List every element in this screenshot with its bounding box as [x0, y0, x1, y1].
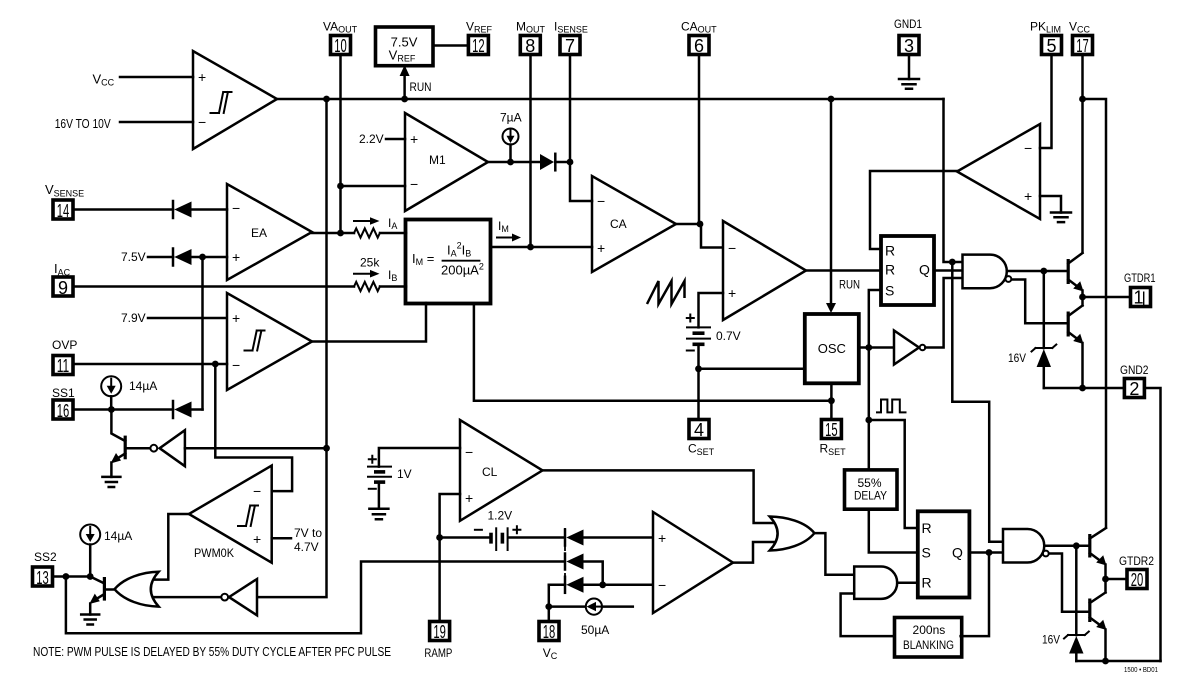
- block 200ns BLANKING: [895, 618, 962, 658]
- svg-text:6: 6: [694, 36, 704, 56]
- latch FF2: [918, 511, 970, 597]
- ground GND1: [908, 55, 911, 80]
- svg-text:S: S: [885, 283, 894, 299]
- comparator PKLIM: [957, 124, 1040, 219]
- comparator PWM2: [653, 512, 733, 613]
- svg-text:−: −: [728, 240, 736, 256]
- node RSET: [828, 397, 835, 404]
- svg-text:18: 18: [543, 622, 556, 642]
- diode D7: [564, 577, 567, 593]
- nand gate NAND2: [1003, 529, 1044, 563]
- wire NAND2 inverted out: [1050, 554, 1089, 612]
- wire PWM2 out: [733, 542, 774, 563]
- svg-text:8: 8: [525, 36, 535, 56]
- wire RUN to NAND2: [952, 262, 1003, 542]
- svg-text:−: −: [410, 176, 418, 192]
- node RAMP: [436, 534, 443, 541]
- svg-text:1: 1: [1133, 288, 1143, 308]
- wire OR1 lower input: [155, 596, 221, 599]
- svg-text:−: −: [597, 193, 605, 209]
- wire FF1 Q out: [934, 269, 963, 272]
- sawtooth waveform symbol: [647, 281, 685, 304]
- node bus-inv: [323, 96, 330, 103]
- battery 0.7V: [687, 326, 710, 328]
- svg-text:GND2: GND2: [1120, 363, 1149, 377]
- pin 18 VC: [539, 622, 559, 641]
- svg-text:50µA: 50µA: [581, 623, 609, 637]
- wire PKLIM comp out to FF1 R: [870, 171, 957, 249]
- svg-text:17: 17: [1076, 36, 1089, 56]
- wire IAC: [73, 285, 354, 288]
- comparator PWM1: [723, 221, 806, 320]
- wire 7.5V: [148, 256, 173, 259]
- svg-text:14µA: 14µA: [104, 529, 132, 543]
- svg-text:PWM0K: PWM0K: [194, 548, 234, 560]
- node VC: [545, 603, 552, 610]
- svg-text:SS2: SS2: [34, 550, 57, 564]
- node CSET: [695, 365, 702, 372]
- ground SS2: [81, 615, 99, 625]
- transistor Q3 (GTDR1 pull-up): [1067, 259, 1070, 284]
- battery 1V: [368, 466, 391, 468]
- svg-text:14µA: 14µA: [129, 379, 157, 393]
- wire CL minus to 1V: [379, 448, 460, 467]
- node M1 out: [507, 159, 514, 166]
- transistor Q4 (GTDR1 pull-down): [1067, 312, 1070, 337]
- svg-text:12: 12: [472, 36, 485, 56]
- wire clock to FF2 R: [869, 420, 918, 528]
- svg-text:RUN: RUN: [839, 278, 860, 292]
- svg-text:3: 3: [904, 36, 914, 56]
- svg-text:R: R: [885, 262, 895, 278]
- svg-text:16V TO 10V: 16V TO 10V: [55, 116, 111, 131]
- wire OVP to PWM0K minus: [215, 364, 292, 491]
- svg-text:CL: CL: [482, 465, 498, 479]
- svg-text:16V: 16V: [1008, 351, 1026, 365]
- svg-text:7: 7: [565, 36, 575, 56]
- diode D4: [540, 154, 554, 170]
- wire VSENSE: [73, 208, 173, 211]
- wire PWM1 plus: [699, 293, 724, 327]
- svg-text:−: −: [198, 114, 206, 130]
- svg-text:M1: M1: [429, 153, 446, 167]
- comparator CL: [460, 420, 543, 521]
- svg-text:DELAY: DELAY: [854, 489, 887, 503]
- node SS2 a: [63, 573, 70, 580]
- svg-text:EA: EA: [251, 226, 267, 240]
- wire CA minus: [570, 162, 592, 201]
- wire GTDR1: [1083, 296, 1131, 299]
- wire battery to CSET node: [697, 344, 700, 369]
- svg-text:+: +: [465, 490, 473, 506]
- node SS1: [108, 406, 115, 413]
- multiplier amp M1: [405, 113, 488, 211]
- node NAND1 out: [1040, 268, 1047, 275]
- wire RSET net: [474, 303, 832, 401]
- svg-text:SS1: SS1: [52, 386, 75, 400]
- node NAND2 out: [1073, 542, 1080, 549]
- error amp CA: [592, 176, 676, 272]
- wire CAOUT: [698, 55, 701, 225]
- transistor Q1 (SS1 reset): [124, 436, 127, 460]
- error amp EA: [227, 184, 312, 280]
- svg-text:10: 10: [334, 36, 347, 56]
- dashed matching line: [564, 528, 566, 594]
- svg-text:OVP: OVP: [52, 338, 77, 352]
- node Q2: [986, 549, 993, 556]
- wire SS2 return: [66, 562, 564, 634]
- wire 55pct delay to FF2 S: [869, 509, 918, 552]
- diode D2: [172, 249, 175, 266]
- label IA arrow: [354, 220, 371, 222]
- svg-text:16V: 16V: [1042, 633, 1060, 647]
- svg-text:25k: 25k: [360, 256, 380, 270]
- svg-text:7.9V: 7.9V: [121, 311, 146, 325]
- wire 7.5V vertical: [201, 257, 204, 410]
- diode D5: [564, 530, 567, 546]
- node GTDR2: [1102, 576, 1109, 583]
- wire RUN arrow into regulator: [403, 74, 406, 99]
- svg-text:+: +: [728, 285, 736, 301]
- svg-text:R: R: [922, 575, 932, 591]
- svg-text:19: 19: [433, 622, 446, 642]
- ground SS1: [102, 477, 120, 487]
- svg-text:RUN: RUN: [410, 80, 432, 94]
- svg-text:−: −: [1024, 140, 1032, 156]
- svg-text:0.7V: 0.7V: [716, 329, 741, 343]
- node inverter U2: [323, 445, 330, 452]
- svg-text:R: R: [885, 243, 895, 259]
- wire VAOUT: [339, 55, 342, 234]
- ground PKLIM: [1051, 213, 1071, 223]
- zener 16V Z2: [1075, 546, 1078, 635]
- inverter U2: [160, 430, 185, 466]
- node D6-D7: [599, 581, 606, 588]
- svg-text:BLANKING: BLANKING: [903, 638, 954, 652]
- wire CA out: [676, 224, 723, 248]
- wire bottom rail: [1076, 660, 1160, 663]
- wire AND1 out: [897, 581, 918, 584]
- wire NAND2 out: [1044, 545, 1088, 548]
- diode D1: [172, 201, 175, 218]
- wire PWM0K plus stub: [272, 537, 291, 540]
- and gate AND1: [854, 567, 897, 599]
- node ISENSE-diode: [567, 159, 574, 166]
- wire 2.2V: [386, 138, 405, 141]
- nand gate NAND1: [963, 255, 1007, 289]
- svg-text:NOTE: PWM PULSE IS DELAYED BY: NOTE: PWM PULSE IS DELAYED BY 55% DUTY C…: [33, 644, 391, 659]
- schmitt comparator PWM0K: [189, 466, 272, 563]
- diode D6: [564, 554, 567, 570]
- wire EA out / IA resistor: [312, 232, 354, 235]
- svg-text:−: −: [658, 577, 666, 593]
- svg-text:+: +: [597, 240, 605, 256]
- svg-text:11: 11: [57, 356, 70, 376]
- comparator U1 (UVLO 16V TO 10V): [193, 51, 277, 149]
- node 7.5V diode: [199, 254, 206, 261]
- svg-text:9: 9: [58, 278, 68, 298]
- wire RUN to inverters: [257, 99, 327, 597]
- wire schmitt out to multiplier: [312, 303, 426, 342]
- svg-text:16: 16: [57, 401, 70, 421]
- wire blanking to Q2: [961, 553, 989, 637]
- svg-text:Q: Q: [919, 262, 930, 278]
- wire SS2: [53, 575, 91, 578]
- pin 19 RAMP: [430, 622, 450, 641]
- svg-text:+: +: [232, 310, 240, 326]
- wire RUN bus: [277, 98, 944, 101]
- svg-text:1.2V: 1.2V: [488, 509, 513, 523]
- svg-text:−: −: [232, 200, 240, 216]
- wire VCC branch: [1083, 99, 1107, 527]
- svg-text:+: +: [410, 131, 418, 147]
- svg-text:200µA2: 200µA2: [441, 262, 484, 278]
- svg-text:GTDR1: GTDR1: [1124, 271, 1156, 285]
- wire RUN into OSC: [830, 99, 833, 305]
- node GND2: [1079, 385, 1086, 392]
- wire UVLO input: [120, 121, 193, 124]
- wire VC: [548, 585, 551, 622]
- transistor Q2 (SS2 reset): [103, 577, 106, 601]
- svg-text:13: 13: [36, 568, 49, 588]
- wire 7.9V: [148, 317, 227, 320]
- node GTDR1: [1079, 294, 1086, 301]
- inverter U3: [229, 579, 257, 615]
- svg-text:+: +: [232, 249, 240, 265]
- diode D3: [172, 401, 175, 418]
- pin 4 CSET: [689, 420, 709, 439]
- svg-text:+: +: [198, 69, 206, 85]
- svg-text:15: 15: [825, 420, 838, 440]
- svg-text:2: 2: [1129, 379, 1139, 399]
- wire RUN bus corner to NAND1: [944, 99, 963, 262]
- label IB arrow: [354, 273, 371, 275]
- svg-text:7.5V: 7.5V: [121, 250, 146, 264]
- wire CSET pin: [697, 369, 700, 420]
- block 55% DELAY: [845, 470, 898, 509]
- wire VCC input: [120, 76, 193, 79]
- multiplier block: [406, 220, 491, 304]
- svg-text:1500 • BD01: 1500 • BD01: [1124, 665, 1158, 674]
- clock waveform symbol: [877, 400, 906, 413]
- wire GND2 to rail: [1144, 388, 1160, 661]
- schmitt comparator OVP: [227, 293, 312, 390]
- wire M1 minus: [341, 185, 406, 188]
- inverter U4: [894, 331, 919, 365]
- svg-text:R: R: [922, 520, 932, 536]
- wire NAND1 inverted out: [1012, 280, 1067, 324]
- node CA out: [697, 221, 704, 228]
- ground 1V: [369, 509, 388, 520]
- or gate OR2: [770, 517, 815, 551]
- svg-text:+: +: [1024, 188, 1032, 204]
- svg-text:1V: 1V: [397, 467, 412, 481]
- wire SS1: [73, 408, 173, 411]
- svg-text:−: −: [465, 444, 473, 460]
- svg-text:200ns: 200ns: [913, 623, 946, 637]
- svg-text:CA: CA: [610, 217, 627, 231]
- wire PWM1 out to FF1 R: [806, 269, 881, 272]
- wire 1.2V row: [440, 536, 490, 539]
- svg-text:−: −: [232, 357, 240, 373]
- resistor 25k: [354, 282, 380, 291]
- svg-text:IM =: IM =: [412, 251, 434, 267]
- wire ISENSE: [569, 55, 572, 163]
- pin 15 RSET: [821, 420, 841, 439]
- transistor Q6 (GTDR2 pull-down): [1088, 599, 1091, 623]
- wire M1 out: [488, 161, 541, 164]
- transistor Q5 (GTDR2 pull-up): [1088, 534, 1091, 558]
- node rail: [1102, 658, 1109, 665]
- wire AND1 lower input: [841, 594, 895, 637]
- node clock b: [865, 417, 872, 424]
- battery 1.2V: [489, 533, 493, 544]
- wire CL plus / RAMP: [440, 494, 460, 622]
- wire node to OSC: [699, 368, 805, 371]
- wire CL out: [543, 470, 775, 523]
- node EA out: [337, 230, 344, 237]
- svg-text:5: 5: [1046, 36, 1056, 56]
- node MOUT-IM: [527, 244, 534, 251]
- svg-text:2.2V: 2.2V: [359, 132, 384, 146]
- node clock a: [865, 344, 872, 351]
- svg-text:GTDR2: GTDR2: [1119, 554, 1154, 568]
- svg-text:7µA: 7µA: [500, 111, 522, 125]
- node SS2 b: [87, 573, 94, 580]
- or gate OR1 (mirrored): [115, 572, 159, 607]
- wire OVP: [73, 363, 227, 366]
- svg-text:7V to: 7V to: [294, 526, 322, 540]
- wire OSC out: [859, 346, 894, 349]
- svg-text:+: +: [658, 530, 666, 546]
- wire NAND1 out: [1007, 270, 1067, 273]
- wire U4 out to NAND1: [925, 278, 962, 348]
- wire FF2 Q out: [969, 551, 1003, 554]
- node NAND1 run: [949, 259, 956, 266]
- node M1 minus: [337, 183, 344, 190]
- wire OR2 out: [814, 533, 854, 575]
- node bus-osc: [828, 96, 835, 103]
- zener 16V Z1: [1043, 271, 1046, 348]
- wire PKLIM pin to minus: [1040, 55, 1052, 149]
- svg-text:4: 4: [694, 420, 704, 440]
- wire PKLIM plus to ground: [1040, 196, 1061, 213]
- svg-text:−: −: [253, 483, 261, 499]
- current source 50uA: [549, 605, 586, 608]
- wire GTDR2: [1106, 578, 1128, 581]
- wire VCC rail: [1081, 55, 1084, 253]
- svg-text:RAMP: RAMP: [424, 646, 452, 660]
- svg-text:+: +: [253, 531, 261, 547]
- svg-text:GND1: GND1: [894, 17, 922, 31]
- wire GND2: [1044, 387, 1125, 390]
- svg-text:20: 20: [1131, 570, 1144, 590]
- wire inverter U2 input: [185, 447, 327, 450]
- node bus-vref: [401, 96, 408, 103]
- svg-text:OSC: OSC: [818, 341, 846, 356]
- svg-text:Q: Q: [952, 545, 963, 561]
- wire MOUT: [529, 55, 532, 248]
- wire regulator to pin 12: [434, 44, 469, 47]
- wire OSC bottom to RSET pin: [830, 383, 833, 419]
- node OVP: [212, 361, 219, 368]
- wire OSC clock vertical: [869, 290, 881, 470]
- svg-text:14: 14: [57, 201, 70, 221]
- regulator block 7.5V VREF: [376, 27, 434, 66]
- svg-text:S: S: [922, 545, 931, 561]
- latch FF1: [881, 236, 934, 305]
- oscillator OSC: [805, 314, 859, 383]
- node VCC: [1079, 96, 1086, 103]
- wire PWM0K out: [155, 514, 189, 580]
- wire IM to CA plus: [490, 246, 592, 249]
- svg-text:4.7V: 4.7V: [294, 540, 319, 554]
